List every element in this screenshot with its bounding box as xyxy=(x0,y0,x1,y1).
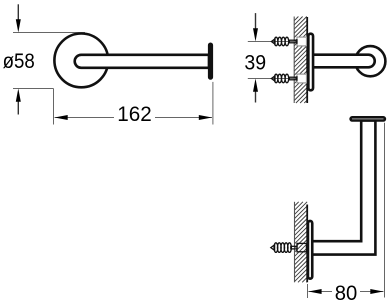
svg-text:162: 162 xyxy=(117,103,152,126)
svg-text:80: 80 xyxy=(335,282,358,303)
svg-text:39: 39 xyxy=(244,52,266,75)
svg-text:ø58: ø58 xyxy=(3,50,35,73)
